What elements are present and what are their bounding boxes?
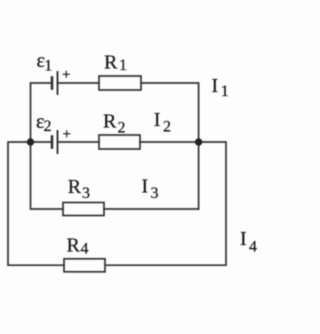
battery E1 negative plate (short) (51, 78, 54, 89)
svg-text:+: + (63, 126, 71, 142)
svg-text:1: 1 (119, 57, 127, 74)
svg-text:2: 2 (44, 118, 52, 135)
svg-text:2: 2 (163, 118, 171, 135)
battery E1 positive plate (long) (57, 72, 59, 94)
wire: branch 1 left vertical + lead to battery E1 (31, 83, 53, 142)
svg-text:1: 1 (44, 58, 52, 75)
junction node B (right) (195, 138, 202, 145)
resistor R4 body (64, 259, 105, 272)
battery E2 negative plate (short) (51, 137, 54, 148)
wire: node A down left vertical to branch 3 and lead to R3 (31, 142, 64, 209)
wire: battery E2 to resistor R2 (58, 141, 100, 143)
svg-text:3: 3 (82, 185, 90, 202)
resistor R1 body (99, 76, 141, 90)
svg-text:4: 4 (249, 239, 257, 256)
wire: R3 to right vertical of branch 3 (104, 208, 199, 210)
wire: node A to battery E2 lead (31, 141, 53, 143)
svg-text:4: 4 (81, 241, 89, 258)
wire: R4 along bottom, up right outer side back to node B (105, 142, 226, 265)
battery E2 positive plate (long) (57, 131, 59, 153)
wire: R1 to top-right corner, down to node B (141, 83, 199, 142)
svg-text:2: 2 (118, 120, 126, 137)
svg-text:3: 3 (151, 185, 159, 202)
svg-text:1: 1 (221, 83, 229, 100)
svg-text:I: I (154, 109, 161, 131)
svg-text:R: R (103, 111, 117, 133)
svg-text:R: R (68, 176, 82, 198)
wire: R2 to node B (140, 141, 199, 143)
svg-text:+: + (62, 67, 70, 83)
wire: node A left to outer loop, down and along bottom to R4 (8, 142, 64, 265)
junction node A (left) (27, 138, 34, 145)
svg-text:I: I (240, 228, 247, 250)
svg-text:I: I (142, 176, 149, 198)
resistor R2 body (99, 135, 140, 149)
resistor R3 body (63, 203, 104, 216)
svg-text:R: R (104, 52, 118, 74)
wire: node B down to branch 3 (198, 142, 200, 209)
svg-text:R: R (67, 235, 81, 257)
svg-text:I: I (212, 75, 219, 97)
wire: battery E1 to resistor R1 (58, 82, 100, 84)
